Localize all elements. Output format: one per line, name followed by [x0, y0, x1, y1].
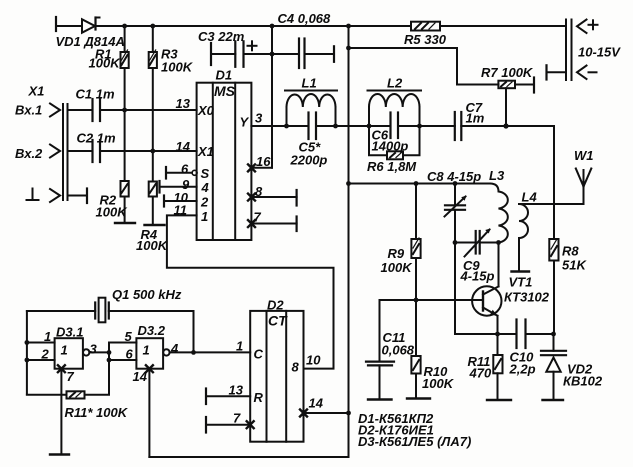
svg-text:R6 1,8M: R6 1,8M	[367, 159, 417, 174]
node L2 right	[417, 124, 422, 129]
svg-text:Вх.1: Вх.1	[15, 103, 42, 118]
power mark pin 8	[248, 194, 255, 201]
ground under R4	[145, 224, 165, 226]
node Bx.2 R3	[150, 149, 155, 154]
wire C8 line from supply column	[349, 183, 491, 185]
capacitor C7	[454, 112, 456, 140]
ground under L4	[512, 270, 530, 272]
svg-text:C3 22m: C3 22m	[198, 29, 245, 44]
capacitor C1	[91, 99, 93, 121]
wire C7 to R8 column	[461, 125, 554, 127]
pin 7 stub	[205, 417, 207, 433]
svg-text:C4 0,068: C4 0,068	[278, 11, 332, 26]
terminal bar R7	[533, 78, 535, 93]
wire supply column	[348, 26, 350, 413]
terminal bar left of VD1	[55, 17, 57, 31]
svg-text:D3-К561ЛЕ5 (ЛА7): D3-К561ЛЕ5 (ЛА7)	[358, 434, 471, 449]
power mark D2 pin 7	[247, 421, 254, 428]
wire D3.1 output	[89, 351, 109, 353]
inductor L2	[368, 107, 370, 126]
svg-text:D3.2: D3.2	[138, 323, 166, 338]
node supply D2 pin14	[346, 411, 351, 416]
svg-text:16: 16	[256, 154, 271, 169]
svg-text:100K: 100K	[422, 376, 455, 391]
svg-text:X0: X0	[197, 103, 215, 118]
gate D3.2 body	[136, 338, 163, 369]
wire signal line pin 3	[251, 125, 308, 127]
capacitor C10	[515, 320, 517, 349]
power mark pin 16	[248, 164, 255, 171]
node VD2 C10	[551, 332, 556, 337]
svg-text:11: 11	[174, 203, 188, 218]
svg-text:2200p: 2200p	[290, 153, 328, 168]
wire D3.1 pin 7 to ground	[60, 369, 62, 455]
node supply C8 line	[346, 181, 351, 186]
wire R1 vertical	[124, 26, 126, 52]
svg-text:C1 1m: C1 1m	[76, 87, 115, 102]
svg-text:CT: CT	[268, 313, 288, 329]
pin arrow Bx.1	[50, 104, 60, 117]
transistor VT1	[472, 286, 501, 315]
svg-text:10: 10	[306, 353, 321, 368]
svg-text:L4: L4	[522, 190, 538, 205]
svg-text:D2: D2	[267, 298, 284, 313]
svg-text:C2 1m: C2 1m	[77, 131, 116, 146]
wire L4 to antenna	[519, 203, 584, 205]
svg-text:Q1 500 kHz: Q1 500 kHz	[112, 287, 182, 302]
wire R3 vertical	[152, 26, 154, 52]
node R7 C7	[503, 123, 508, 128]
wire R7 feed from supply column	[349, 48, 499, 85]
wire D3.2 input column	[108, 343, 110, 395]
svg-text:КВ102: КВ102	[563, 374, 603, 389]
svg-text:2: 2	[200, 195, 209, 210]
IC D1 body	[197, 83, 252, 240]
power mark D3.1 pin 7	[58, 365, 65, 372]
ground D3.1 pin 7	[50, 453, 69, 455]
resistor R5	[411, 22, 440, 31]
inductor L3	[490, 184, 508, 243]
node crystal D3.2 out	[191, 350, 196, 355]
crystal Q1	[94, 303, 96, 319]
svg-text:S: S	[201, 166, 210, 181]
node D3.2 pin 6	[107, 358, 112, 363]
svg-text:Вх.2: Вх.2	[15, 146, 43, 161]
terminal bar ground stub	[86, 189, 88, 204]
connector X1 body	[62, 104, 64, 200]
svg-text:R: R	[254, 390, 264, 405]
pin arrow Bx.2	[50, 145, 60, 158]
wire R7 down to C7 line	[505, 88, 507, 126]
capacitor C11	[379, 300, 381, 361]
svg-text:0,068: 0,068	[382, 343, 415, 358]
power connector body	[565, 20, 567, 81]
svg-text:100K: 100K	[89, 56, 122, 71]
varicap VD2	[553, 334, 555, 351]
svg-text:1: 1	[236, 339, 243, 354]
svg-text:100K: 100K	[381, 260, 414, 275]
wire D3.2 output	[170, 351, 194, 353]
svg-text:1m: 1m	[466, 111, 485, 126]
ground under R2	[115, 222, 135, 224]
wire emitter tap column	[455, 243, 498, 335]
wire emitter row	[498, 333, 517, 335]
terminal bar minus	[545, 65, 547, 79]
node L1 left	[284, 124, 289, 129]
svg-text:MS: MS	[214, 83, 236, 99]
ground under VD2	[543, 399, 564, 401]
node rail pin16 column	[270, 24, 275, 29]
svg-text:7: 7	[254, 210, 262, 225]
wire Bx.1 row	[68, 109, 93, 111]
diode VD1	[82, 19, 95, 32]
wire C2 to pin 14	[100, 150, 197, 152]
capacitor C3	[234, 41, 236, 67]
minus pin arrow	[577, 66, 587, 80]
svg-text:D1: D1	[216, 68, 233, 83]
svg-text:470: 470	[469, 366, 492, 381]
svg-text:КТ3102: КТ3102	[504, 290, 550, 305]
resistor R4	[149, 182, 157, 197]
svg-text:13: 13	[176, 96, 191, 111]
svg-text:51K: 51K	[562, 258, 587, 273]
terminal bar C3 left	[210, 43, 212, 65]
wire D3.2 pin 14 to supply	[148, 369, 150, 457]
pin arrow ground	[50, 189, 60, 202]
wire crystal row	[27, 310, 95, 312]
inductor L1	[286, 107, 288, 126]
terminal bar C4 right	[333, 46, 335, 62]
pin 7 stub	[251, 223, 296, 225]
svg-text:100K: 100K	[136, 238, 169, 253]
svg-text:1400p: 1400p	[372, 139, 409, 154]
capacitor C5	[307, 113, 309, 140]
svg-text:D3.1: D3.1	[56, 325, 83, 340]
svg-text:X1: X1	[197, 144, 214, 159]
svg-text:R9: R9	[388, 246, 405, 261]
node emitter	[495, 332, 500, 337]
resistor R9	[415, 184, 417, 240]
svg-text:100K: 100K	[161, 60, 194, 75]
node Bx.1 R1	[122, 108, 127, 113]
svg-text:L3: L3	[489, 168, 505, 183]
power mark D2 pin 14	[300, 410, 307, 417]
svg-text:R11* 100K: R11* 100K	[65, 405, 129, 420]
wire top rail	[56, 25, 82, 27]
wire node to C4	[272, 53, 299, 55]
resistor R8	[553, 126, 555, 239]
capacitor C6	[389, 113, 391, 139]
svg-text:1: 1	[61, 343, 68, 358]
svg-text:8: 8	[255, 184, 263, 199]
wire D3.1 inputs	[27, 342, 55, 344]
wire C6 to C7	[398, 125, 455, 127]
svg-text:L2: L2	[387, 76, 403, 91]
svg-text:X1: X1	[28, 84, 45, 99]
node R7 feed	[346, 46, 351, 51]
wire D2 pin 1	[194, 351, 251, 353]
wire R4 to ground	[152, 151, 154, 182]
power mark pin 7	[248, 220, 255, 227]
svg-text:14: 14	[133, 369, 148, 384]
svg-text:13: 13	[229, 383, 244, 398]
resistor R2	[121, 181, 129, 197]
plus mark C3	[248, 45, 257, 47]
wire C9 row	[455, 242, 476, 244]
ground under C11	[368, 398, 392, 400]
wire Bx.2 row	[68, 150, 93, 152]
svg-text:C: C	[254, 347, 264, 362]
power mark D3.2 pin 14	[146, 365, 153, 372]
svg-text:6: 6	[126, 347, 134, 362]
resistor R6 loop	[369, 126, 387, 155]
node C3 C4	[270, 52, 275, 57]
wire collector to L3	[498, 243, 500, 287]
node rail R1	[122, 24, 127, 29]
svg-text:3: 3	[255, 111, 263, 126]
svg-text:1: 1	[143, 343, 150, 358]
svg-text:4: 4	[170, 341, 179, 356]
ground under R10	[407, 397, 430, 399]
wire base line	[380, 299, 484, 301]
resistor R1	[121, 52, 129, 68]
antenna W1	[583, 170, 585, 204]
resistor R11*	[27, 394, 67, 396]
node L3 collector	[496, 240, 501, 245]
svg-text:2: 2	[41, 347, 50, 362]
wire C3 left lead	[211, 53, 235, 55]
svg-text:5: 5	[125, 329, 133, 344]
resistor R10	[415, 300, 417, 356]
svg-text:14: 14	[176, 139, 191, 154]
svg-text:R8: R8	[562, 244, 579, 259]
plus sign	[589, 24, 598, 26]
gate D3.1 body	[55, 338, 83, 369]
node base R9 R10	[414, 298, 419, 303]
earth symbol X1	[32, 189, 34, 200]
pin 10 stub	[163, 196, 165, 207]
svg-text:VD1 Д814А: VD1 Д814А	[56, 34, 125, 49]
svg-text:2,2p: 2,2p	[509, 362, 536, 377]
wire oscillator left column	[26, 311, 28, 395]
wire ground stub	[68, 195, 88, 197]
wire D2 pin 14	[304, 412, 349, 414]
svg-text:4: 4	[201, 180, 210, 195]
svg-text:L1: L1	[302, 76, 317, 91]
svg-text:1: 1	[44, 329, 51, 344]
node C8 top	[453, 181, 458, 186]
node rail R3	[150, 24, 155, 29]
svg-text:14: 14	[309, 396, 324, 411]
wire R7 right lead	[515, 84, 534, 86]
pin 8 stub	[251, 196, 296, 198]
IC D2 body	[250, 311, 303, 442]
svg-text:6: 6	[181, 162, 189, 177]
node rail supply column	[346, 24, 351, 29]
wire C4 right lead	[305, 53, 335, 55]
pin 6 stub	[165, 167, 167, 179]
plus pin arrow	[577, 20, 587, 34]
node D3.1 out D3.2 in	[107, 350, 112, 355]
wire C5 to C6	[316, 125, 391, 127]
svg-text:VT1: VT1	[509, 275, 533, 290]
wire C3 to node	[244, 53, 273, 55]
node R9 top	[414, 181, 419, 186]
svg-text:7: 7	[67, 369, 75, 384]
ground under R11	[487, 399, 511, 401]
svg-text:4-15p: 4-15p	[460, 269, 495, 284]
svg-text:Y: Y	[240, 115, 250, 130]
svg-text:W1: W1	[574, 148, 594, 163]
capacitor C2	[91, 140, 93, 162]
trimmer C9	[475, 231, 477, 254]
trimmer C8	[454, 184, 456, 206]
resistor R3	[149, 52, 157, 68]
node L2 left	[367, 124, 372, 129]
wire crystal to D3.2 output	[109, 310, 194, 312]
svg-text:10-15V: 10-15V	[578, 45, 621, 60]
wire pin 16 riser	[251, 167, 272, 169]
svg-text:R7 100K: R7 100K	[481, 65, 534, 80]
pin 9 stub	[158, 181, 160, 193]
svg-text:8: 8	[292, 360, 300, 375]
wire C1 to pin 13	[100, 109, 197, 111]
node C8 C9 tap	[453, 240, 458, 245]
svg-text:3: 3	[90, 342, 98, 357]
pin 13 stub	[205, 389, 207, 405]
wire R2 to ground	[124, 110, 126, 181]
node D3.1 input 1	[25, 340, 30, 345]
wire minus terminal	[547, 71, 567, 73]
node L1 right	[333, 124, 338, 129]
svg-text:R5 330: R5 330	[404, 32, 447, 47]
resistor R7	[498, 81, 515, 89]
svg-text:1: 1	[201, 209, 208, 224]
capacitor C4	[298, 39, 300, 69]
node D3.1 input 2	[25, 358, 30, 363]
minus sign	[589, 71, 597, 73]
inductor L4	[519, 204, 528, 238]
svg-text:7: 7	[233, 411, 241, 426]
svg-text:100K: 100K	[96, 205, 129, 220]
wire pin 11 of D1 to pin 10 of D2	[167, 215, 334, 368]
resistor R11 470	[497, 334, 499, 355]
